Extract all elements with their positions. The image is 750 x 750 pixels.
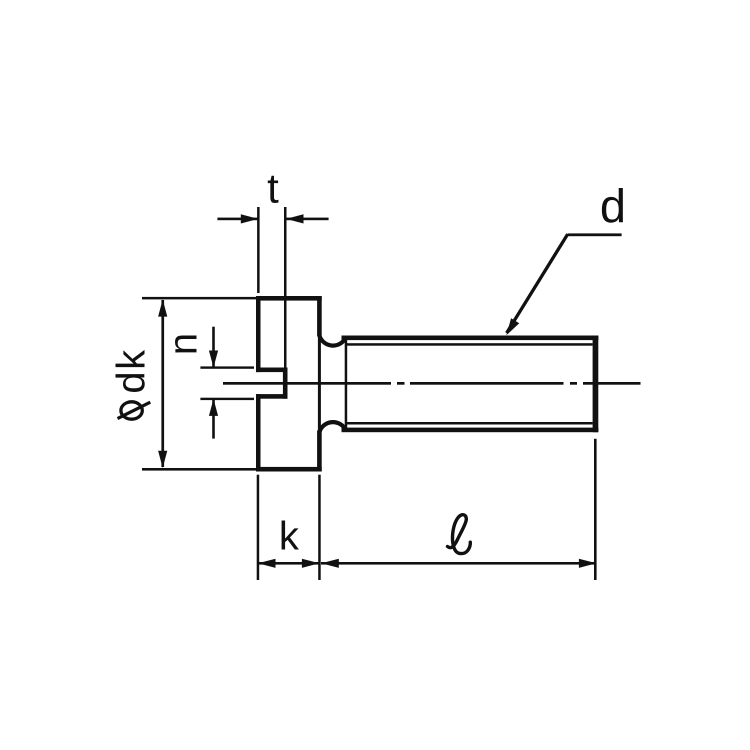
svg-text:dk: dk — [109, 348, 153, 393]
svg-text:d: d — [600, 180, 626, 233]
svg-text:t: t — [267, 165, 279, 212]
svg-text:n: n — [161, 333, 205, 355]
svg-text:k: k — [279, 515, 300, 559]
